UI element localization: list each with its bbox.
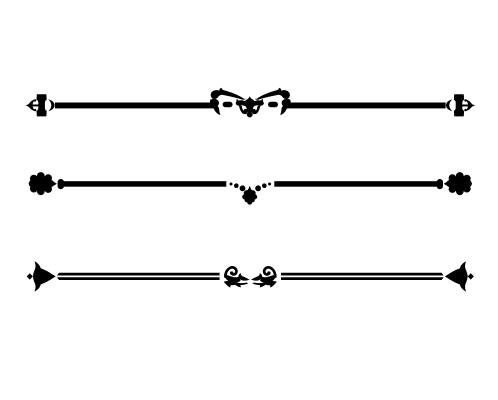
divider1 center fleur right volute — [252, 105, 261, 114]
divider3 left diamond — [27, 273, 33, 279]
divider2 left rosette point — [48, 179, 57, 188]
divider1 center-left tail — [213, 105, 221, 115]
divider1 center knot left thorn — [236, 99, 238, 102]
divider1 left finial: C-scroll — [29, 99, 36, 111]
divider2 left capsule — [58, 179, 64, 189]
divider2 center pendant — [247, 186, 252, 192]
divider3 top line — [57, 273, 220, 276]
divider3 left scroll coil club — [230, 271, 233, 274]
divider2 left bar — [63, 181, 226, 187]
divider1 center-left wing — [211, 88, 247, 100]
divider3 right half (mirror) — [251, 261, 474, 291]
divider2 left rosette — [32, 175, 49, 192]
divider2 right half (mirror) — [255, 172, 472, 195]
divider1 center bowtie knot — [236, 96, 264, 110]
divider3 left scroll fringe — [224, 281, 248, 288]
divider1 center fleur drop — [247, 110, 253, 118]
divider1 left finial: C-scroll knobs — [34, 99, 36, 101]
divider2 dots — [230, 183, 233, 186]
divider3 bottom line — [57, 277, 220, 280]
divider3 left scroll leaflet — [238, 273, 249, 280]
divider3 left arrow — [33, 261, 56, 291]
divider1 left finial: neck — [30, 105, 40, 107]
divider1 center-left capsule — [223, 102, 233, 107]
divider1 left finial: spike — [25, 103, 31, 108]
divider3 left scroll body — [224, 274, 241, 283]
divider1 center fleur left volute — [239, 105, 248, 114]
divider1 right half (mirror) — [254, 88, 475, 117]
divider1 center-left blob — [210, 99, 219, 107]
divider3 left scroll coil — [225, 267, 236, 276]
divider1 left finial: cross shaft with flared ends — [37, 94, 47, 116]
divider1 left bar — [55, 103, 215, 109]
divider1 center knot right thorn — [261, 99, 263, 102]
divider1 left finial: crescent — [48, 99, 54, 111]
